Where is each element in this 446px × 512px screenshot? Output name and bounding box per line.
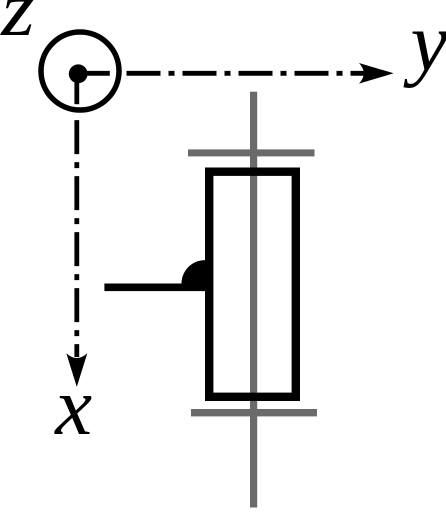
svg-text:z: z bbox=[0, 0, 35, 52]
svg-text:x: x bbox=[53, 360, 92, 452]
svg-text:y: y bbox=[403, 0, 446, 89]
